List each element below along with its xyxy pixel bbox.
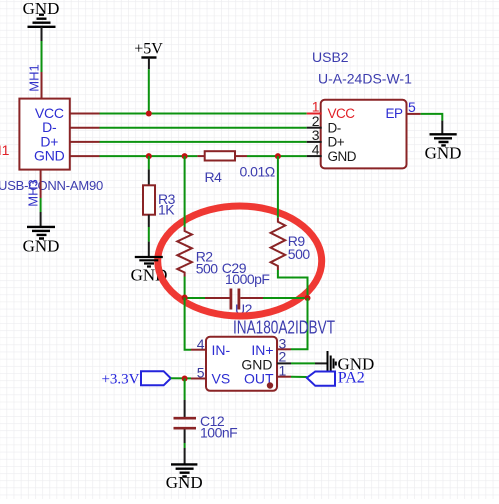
wire VCC row (70, 113, 307, 115)
svg-text:100nF: 100nF (200, 425, 237, 441)
resistor R3 1K (143, 185, 176, 217)
svg-text:USB-CONN-AM90: USB-CONN-AM90 (0, 178, 103, 193)
svg-text:500: 500 (196, 261, 219, 277)
svg-text:5: 5 (408, 99, 416, 115)
pin number 2 (312, 113, 320, 129)
ground GND below MH3 (23, 227, 60, 256)
resistor R4 0.01ohm shunt (197, 151, 247, 160)
svg-text:VCC: VCC (328, 106, 356, 121)
wire IN- node to pin4 (185, 298, 191, 350)
wire: top GND to MH1 pin (41, 27, 43, 72)
pin number 1 (279, 363, 287, 379)
pin 1 stub USB2 (307, 113, 322, 115)
svg-text:+3.3V: +3.3V (101, 372, 139, 388)
wire GND row left of R4 (70, 155, 198, 157)
wire +5V down (148, 69, 150, 113)
wire EP to ground (421, 114, 443, 134)
power port GND (signal ground, sideways) (328, 351, 375, 379)
connector USB2 U-A-24DS-W-1 (321, 100, 407, 169)
wire C29 row left (185, 297, 205, 299)
ground GND below C12 (166, 464, 203, 492)
wire R3 to ground (148, 215, 150, 257)
resistor R9 500 (271, 218, 311, 270)
junction VS node (182, 376, 188, 382)
wire GND row right of R4 (247, 155, 307, 157)
svg-text:1K: 1K (158, 202, 175, 218)
pin 4 stub (191, 349, 206, 351)
pin 4 stub USB2 (307, 155, 322, 157)
capacitor C29 1000pF (205, 289, 263, 310)
svg-text:IN-: IN- (212, 342, 231, 358)
wire pin2 to GND port (291, 362, 328, 364)
pin number 4 (312, 141, 320, 157)
svg-text:EP: EP (385, 106, 403, 121)
resistor R2 500 (177, 227, 218, 277)
wire IN+ node to pin3 (291, 298, 308, 349)
pin 2 stub (277, 362, 291, 364)
svg-text:GND: GND (166, 473, 203, 492)
svg-text:GND: GND (34, 148, 65, 164)
pin number 1 (312, 99, 320, 115)
pin number 5 (197, 365, 205, 381)
junction IN+ node (305, 295, 311, 301)
svg-text:USB2: USB2 (312, 49, 349, 65)
svg-text:INA180A2IDBVT: INA180A2IDBVT (233, 318, 335, 338)
wire R2 bottom (184, 277, 186, 298)
wire to R3 (148, 156, 150, 185)
op-amp U2 INA180 current-sense amplifier (206, 337, 277, 391)
junction +5V/VCC (146, 111, 152, 117)
svg-text:4: 4 (312, 141, 320, 157)
wire GND row to R2 (184, 156, 186, 227)
svg-text:+5V: +5V (134, 41, 163, 58)
svg-text:U-A-24DS-W-1: U-A-24DS-W-1 (318, 71, 412, 87)
power port +3.3V (101, 371, 170, 387)
pin number 3 (312, 127, 320, 143)
wire MH3 to ground (40, 198, 42, 227)
svg-text:R4: R4 (205, 169, 223, 185)
svg-text:PA2: PA2 (338, 370, 365, 387)
wire D- row (70, 127, 307, 129)
power port +5V (134, 41, 163, 70)
designator R4 (205, 169, 223, 185)
svg-text:VS: VS (212, 371, 231, 387)
designator USB2 (312, 49, 349, 65)
svg-text:4: 4 (197, 336, 205, 352)
junction R2/GND row (182, 153, 188, 159)
wire C12 to ground (184, 430, 186, 465)
junction IN- node (182, 295, 188, 301)
wire VS node to C12 (184, 379, 186, 418)
wire D+ row (70, 141, 307, 143)
value INA180A2IDBVT (233, 318, 335, 338)
svg-text:GND: GND (328, 149, 357, 164)
pin 5 stub EP (407, 113, 421, 115)
svg-text:MH1: MH1 (27, 64, 42, 91)
ground GND right of USB2 (425, 134, 462, 162)
wire C29 row right (263, 297, 308, 299)
svg-text:1000pF: 1000pF (225, 271, 269, 287)
svg-text:GND: GND (425, 143, 462, 162)
designator U2 (under annotation) (235, 301, 253, 317)
pin number 4 (197, 336, 205, 352)
wire R9 bottom jog to IN+ node (278, 270, 308, 298)
value U-A-24DS-W-1 (318, 71, 412, 87)
annotation red ellipse (158, 206, 322, 316)
svg-text:N1: N1 (0, 142, 10, 158)
pin 3 stub (277, 348, 291, 350)
pin MH3 (26, 170, 41, 207)
svg-text:D-: D- (328, 120, 341, 135)
pin 2 stub USB2 (307, 127, 322, 129)
pin MH1 (27, 64, 42, 99)
pin number 5 (408, 99, 416, 115)
pin number 3 (279, 336, 287, 352)
wire GND row to R9 (277, 156, 279, 218)
value 0.01ohm (240, 164, 275, 180)
svg-text:0.01Ω: 0.01Ω (240, 164, 275, 180)
value label GND for ground under R3 (131, 266, 168, 285)
capacitor C12 100nF (174, 413, 238, 441)
value labels C29 1000pF (222, 260, 270, 287)
junction R9/GND row (275, 153, 281, 159)
port PA2 (307, 370, 365, 387)
svg-text:GND: GND (23, 237, 60, 256)
wire +3.3V to pin5 (171, 377, 191, 379)
wire pin1 to PA2 port (291, 376, 307, 378)
ground symbol below R3 (135, 257, 163, 267)
designator N1 (0, 142, 10, 158)
junction R3/GND row (146, 153, 152, 159)
ground GND top-left (inverted) (23, 0, 60, 27)
pin 3 stub USB2 (307, 141, 322, 143)
pin number 2 (279, 349, 287, 365)
svg-text:MH3: MH3 (26, 179, 41, 206)
svg-text:500: 500 (288, 246, 311, 262)
pin 5 stub (191, 378, 206, 380)
pin 1 stub (277, 376, 291, 378)
value USB-CONN-AM90 (0, 178, 103, 193)
connector N1 USB-CONN-AM90 (19, 99, 69, 170)
svg-text:D+: D+ (328, 135, 345, 150)
